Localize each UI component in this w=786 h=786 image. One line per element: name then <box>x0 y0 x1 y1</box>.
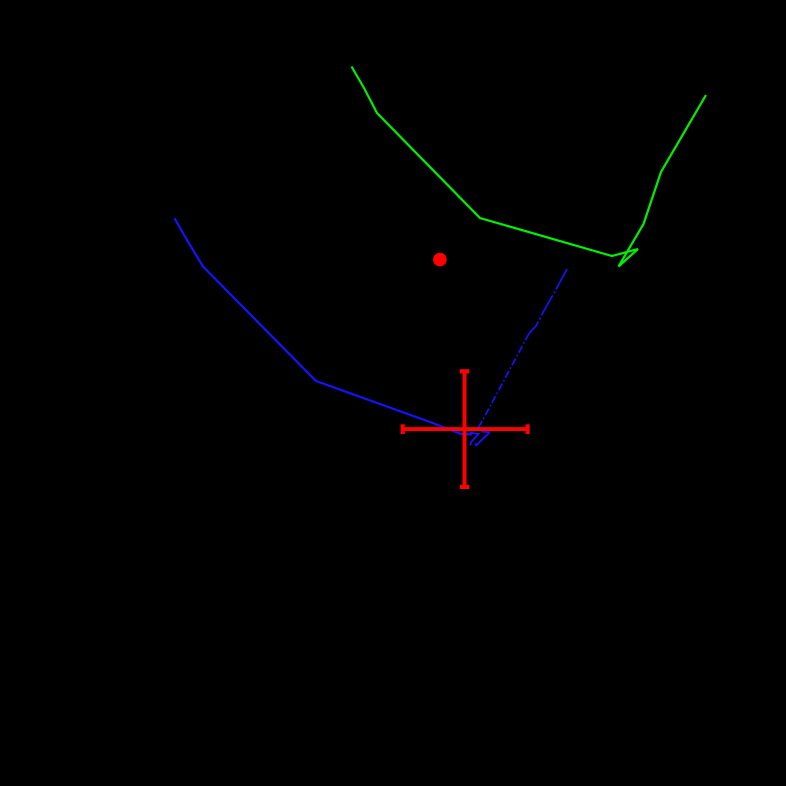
blue solid trajectory <box>175 219 471 434</box>
blue diagonal scribble stroke <box>476 432 490 445</box>
blue dash-dot rising line upper section <box>529 269 567 334</box>
blue scribble end blob <box>476 443 477 446</box>
blue seven-shaped scribble <box>470 433 479 443</box>
red data point marker <box>433 253 447 267</box>
green trajectory polyline with zigzag loop <box>352 67 707 267</box>
red error bar horizontal <box>403 427 528 431</box>
red error bar left cap <box>401 424 405 434</box>
blue scribble dot <box>470 443 472 445</box>
red error bar bottom cap <box>460 485 470 489</box>
blue dash-dot rising line lower section <box>478 334 529 429</box>
blue arrowhead scribble upper stroke <box>481 431 489 434</box>
red error bar right cap <box>525 424 529 434</box>
red error bar top cap <box>460 369 470 373</box>
red error bar vertical <box>463 371 467 487</box>
